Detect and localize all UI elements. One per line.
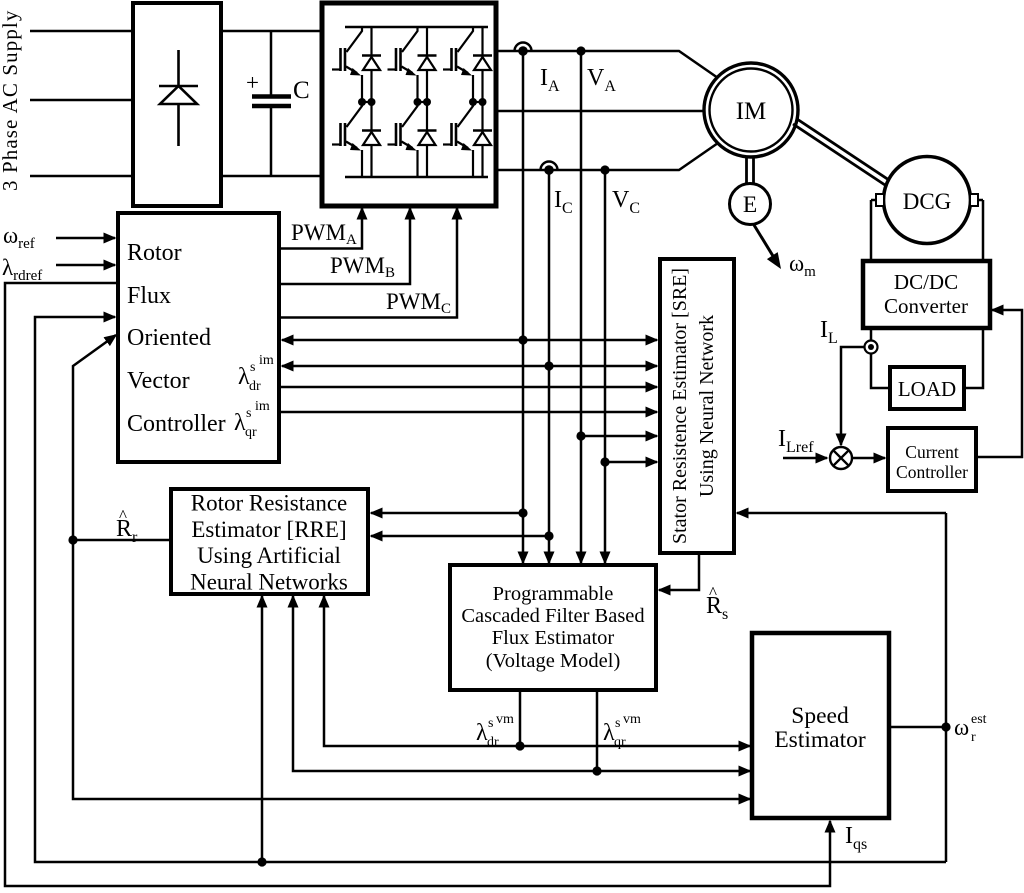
wire R_s_hat output to flux estimator <box>659 553 699 590</box>
svg-text:Converter: Converter <box>884 294 968 318</box>
transistor QBH (top IGBT leg B) <box>388 28 418 102</box>
svg-text:s: s <box>488 716 493 731</box>
diode DAH (top freewheel diode leg A) <box>362 27 381 102</box>
motor IM (inner circle) <box>710 69 793 152</box>
SRE box (Stator Resistence Estimator) <box>660 259 734 553</box>
svg-text:est: est <box>971 712 987 727</box>
wire inverter - bus <box>345 176 488 179</box>
controller box (Rotor Flux Oriented Vector Controller) <box>118 213 279 462</box>
wire omega_r_est output <box>889 726 946 729</box>
svg-text:LOAD: LOAD <box>898 377 956 401</box>
wire DC- rail <box>221 175 322 178</box>
svg-text:Cascaded Filter Based: Cascaded Filter Based <box>461 605 644 627</box>
DCG left brush terminal <box>876 194 884 206</box>
junction I_A to RRE <box>518 508 527 517</box>
wire PWM_A <box>279 208 362 249</box>
wire AC phase 2 <box>30 99 133 102</box>
wire current controller output loop to DC/DC <box>976 310 1022 457</box>
svg-text:IM: IM <box>736 98 767 125</box>
rectifier bridge box <box>133 3 221 206</box>
wire lambda_rdref input <box>56 264 115 267</box>
junction lambda_dr_svm <box>515 741 524 750</box>
transistor QBL (bottom IGBT leg B) <box>388 103 418 177</box>
wire R_r_hat up + diagonal into controller <box>73 335 116 540</box>
junction omega feedback / RRE <box>257 857 266 866</box>
LOAD box <box>890 367 964 409</box>
svg-text:im: im <box>255 399 270 414</box>
wire lambda_qr_svm to RRE + speed estimator <box>293 596 750 771</box>
wire lambda_dr_svm to RRE + speed estimator <box>324 596 750 746</box>
svg-text:Flux: Flux <box>127 283 171 309</box>
svg-text:Using Artificial: Using Artificial <box>197 543 341 568</box>
svg-text:ω: ω <box>954 715 969 740</box>
svg-text:qr: qr <box>614 735 626 750</box>
wire lambda_dr_sim to SRE <box>279 386 657 389</box>
svg-text:Stator Resistence Estimator [S: Stator Resistence Estimator [SRE] <box>669 268 691 544</box>
diode DCL (bottom freewheel diode leg C) <box>473 102 492 177</box>
wire R_r_hat down to speed estimator line <box>73 540 750 799</box>
junction I_C on signal line <box>544 361 553 370</box>
wire phase B to IM <box>496 110 704 113</box>
wire V_C sense line down <box>604 170 607 563</box>
RRE box (Rotor Resistance Estimator) <box>171 489 368 594</box>
svg-text:^: ^ <box>709 583 717 602</box>
Current Controller box <box>888 428 976 491</box>
transistor QAH (top IGBT leg A) <box>332 28 362 102</box>
wire omega_ref input <box>56 237 115 240</box>
wire omega_r_est feedback to controller <box>35 317 946 862</box>
svg-text:E: E <box>743 192 757 218</box>
wire DCG right terminal to DC/DC <box>978 200 983 261</box>
svg-text:r: r <box>971 730 976 745</box>
svg-text:Using Neural Network: Using Neural Network <box>696 315 718 497</box>
summing junction (x) <box>830 447 852 469</box>
junction: leg C midpoint dots <box>469 98 487 106</box>
svg-text:Programmable: Programmable <box>493 583 614 605</box>
current sensor I_C (dot + clamp arc) <box>541 162 558 175</box>
diode DCH (top freewheel diode leg C) <box>473 27 492 102</box>
svg-text:Estimator [RRE]: Estimator [RRE] <box>191 517 346 542</box>
wire DC/DC right output down to LOAD <box>964 328 983 388</box>
encoder E circle <box>730 184 771 225</box>
wire V_A sense line down <box>580 51 583 563</box>
wire phase A to IM <box>496 51 718 78</box>
wire I_A sense line down <box>522 51 525 563</box>
svg-text:Estimator: Estimator <box>774 727 866 753</box>
svg-text:(Voltage Model): (Voltage Model) <box>486 650 621 672</box>
wire omega feedback to RRE middle input <box>261 596 264 862</box>
svg-text:DC/DC: DC/DC <box>894 270 958 294</box>
junction lambda_qr_svm <box>592 766 601 775</box>
svg-text:3 Phase AC Supply: 3 Phase AC Supply <box>0 10 22 191</box>
wire I_A signal: controller <-> SRE <box>282 339 657 342</box>
shaft IM to DCG (double line) <box>793 119 892 187</box>
svg-text:dr: dr <box>487 735 499 750</box>
capacitor C <box>252 31 291 176</box>
wire DC/DC left output down <box>871 328 890 388</box>
wire R_r_hat output <box>73 539 171 542</box>
wire V_A signal to SRE <box>581 435 657 438</box>
svg-text:vm: vm <box>623 712 641 727</box>
wire I_C tap to RRE <box>371 535 549 538</box>
diode DBH (top freewheel diode leg B) <box>418 27 437 102</box>
wire inverter + bus <box>345 26 488 29</box>
svg-text:s: s <box>246 406 251 421</box>
junction: leg B midpoint dots <box>414 98 432 106</box>
wire omega_r_est vertical bus <box>945 513 948 862</box>
svg-text:Rotor: Rotor <box>127 240 182 266</box>
current sensor I_L <box>865 341 878 354</box>
junction R_r_hat <box>68 535 77 544</box>
wire omega_m output arrow <box>754 225 773 256</box>
junction V_C on signal line <box>600 457 609 466</box>
svg-text:s: s <box>615 716 620 731</box>
svg-text:Neural Networks: Neural Networks <box>190 570 348 595</box>
svg-text:Flux Estimator: Flux Estimator <box>492 627 615 649</box>
svg-text:Controller: Controller <box>127 411 226 437</box>
wire summing junction to current controller <box>852 457 885 460</box>
wire I_C signal: controller <-> SRE <box>282 365 657 368</box>
shaft IM to encoder (double line) <box>747 157 754 184</box>
DCG right brush terminal <box>970 194 978 206</box>
wire I_A tap to RRE <box>371 512 523 515</box>
svg-text:dr: dr <box>249 379 261 394</box>
svg-text:+: + <box>246 70 259 95</box>
Speed Estimator box <box>752 633 889 818</box>
wire PWM_B <box>279 208 410 284</box>
wire AC phase 3 <box>30 175 133 178</box>
svg-text:qr: qr <box>245 425 257 440</box>
svg-text:Vector: Vector <box>127 368 190 394</box>
junction I_C to RRE <box>544 531 553 540</box>
wire lambda_dr_svm output down <box>519 690 522 746</box>
svg-text:vm: vm <box>496 712 514 727</box>
motor IM (outer circle) <box>704 63 798 157</box>
flux estimator box (Programmable Cascaded Filter) <box>450 565 656 690</box>
svg-text:^: ^ <box>119 506 127 525</box>
current sensor I_A (dot + clamp arc) <box>515 43 532 56</box>
wire I_L feedback to summing junction <box>841 347 865 445</box>
DC/DC converter box <box>863 261 990 328</box>
wire DCG left terminal to DC/DC <box>871 200 876 261</box>
transistor QCL (bottom IGBT leg C) <box>443 103 473 177</box>
svg-text:Controller: Controller <box>896 462 968 482</box>
transistor QCH (top IGBT leg C) <box>443 28 473 102</box>
generator DCG circle <box>884 157 971 244</box>
junction: leg A midpoint dots <box>358 98 376 106</box>
junction V_A on signal line <box>576 431 585 440</box>
svg-text:Speed: Speed <box>791 703 849 729</box>
wire I_C sense line down <box>548 170 551 563</box>
svg-text:Oriented: Oriented <box>127 325 211 351</box>
diode DAL (bottom freewheel diode leg A) <box>362 102 381 177</box>
wire I_Lref input arrow <box>783 457 827 460</box>
svg-text:DCG: DCG <box>903 189 952 214</box>
wire V_C signal to SRE <box>605 461 657 464</box>
inverter box <box>322 3 496 206</box>
svg-text:Rotor Resistance: Rotor Resistance <box>191 491 348 516</box>
diode DBL (bottom freewheel diode leg B) <box>418 102 437 177</box>
wire DC+ rail <box>221 30 322 33</box>
wire AC phase 1 <box>30 30 133 33</box>
node V_A tap <box>576 46 585 55</box>
diode D1 (rectifier symbol) <box>159 50 198 146</box>
junction omega_r_est <box>941 722 950 731</box>
svg-text:s: s <box>250 360 255 375</box>
transistor QAL (bottom IGBT leg A) <box>332 103 362 177</box>
wire phase C to IM <box>496 143 718 170</box>
wire lambda_qr_svm output down <box>596 690 599 771</box>
junction I_A on signal line <box>518 335 527 344</box>
wire lambda_qr_sim to SRE <box>279 411 657 414</box>
wire I_qs loop from controller <box>5 283 830 886</box>
svg-text:C: C <box>293 77 310 104</box>
svg-text:im: im <box>259 353 274 368</box>
wire omega_r_est into SRE right side <box>737 512 946 515</box>
wire PWM_C <box>279 208 457 318</box>
node V_C tap <box>600 165 609 174</box>
svg-text:Current: Current <box>905 442 959 462</box>
